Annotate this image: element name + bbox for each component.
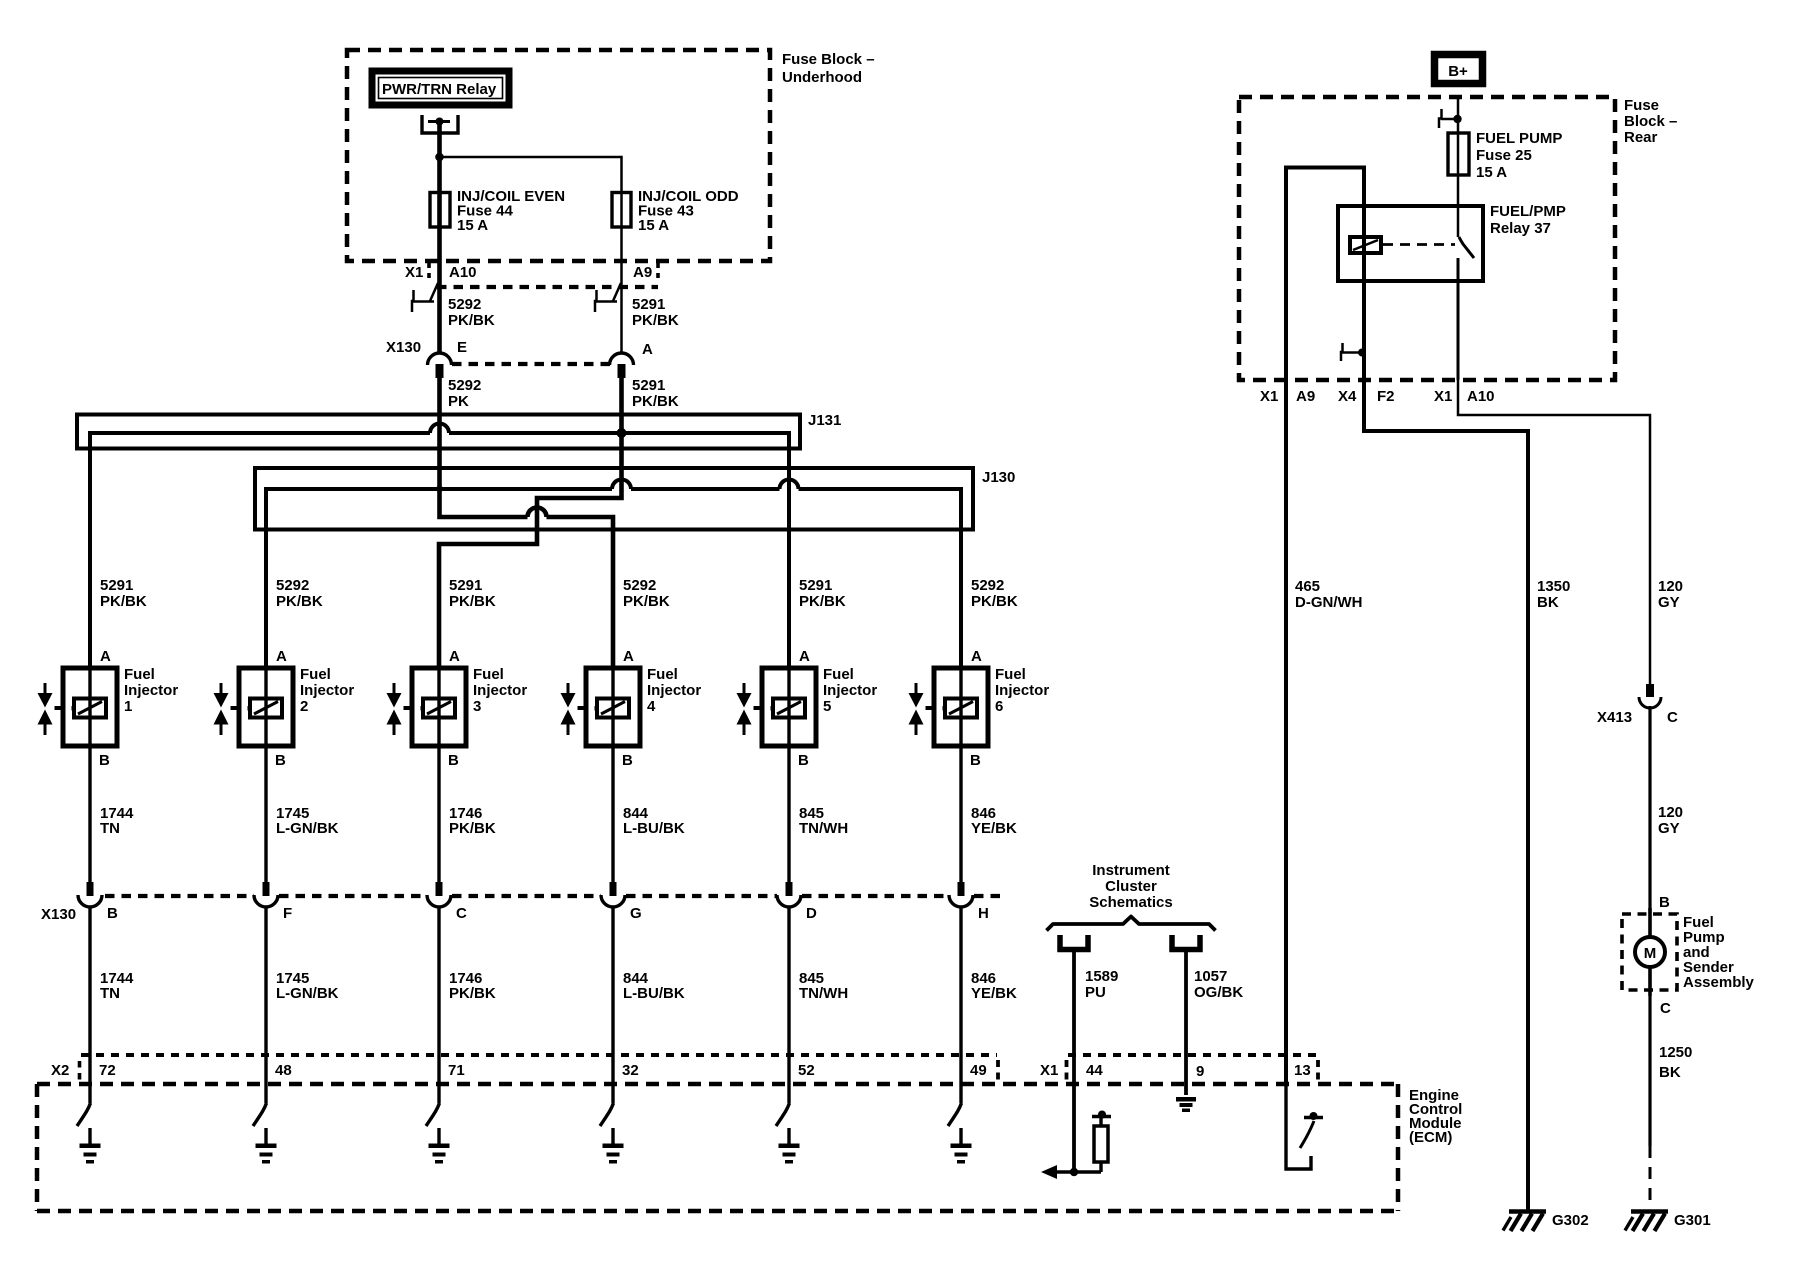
label pin A injector 6 (971, 648, 982, 665)
wire relay branch to fuse 43 (440, 157, 622, 353)
label wire 1589 PU (1085, 968, 1118, 1001)
relay K37 FUEL/PMP box (1338, 206, 1483, 281)
ECM internal ground 1 (80, 1128, 101, 1164)
fuse F44 INJ/COIL EVEN (430, 193, 450, 228)
label ECM pin 52 (798, 1062, 815, 1079)
label wire mid 1 (100, 805, 134, 837)
label ECM pin 44 (1086, 1062, 1103, 1079)
svg-text:PU: PU (1085, 984, 1106, 1001)
fuel injector 5 box (762, 668, 816, 746)
connector X1 ECM dotted line (1068, 1053, 1317, 1057)
connector X130 C female half (427, 895, 451, 907)
wire 5292 PK down (437, 378, 442, 515)
wire X130 B to ECM (88, 906, 91, 1103)
svg-text:Fuel: Fuel (124, 666, 155, 683)
wire 5291 crossover to injector 3 (439, 496, 622, 668)
label wire low 3 (449, 970, 496, 1002)
svg-text:48: 48 (275, 1062, 292, 1079)
junction dot (435, 153, 444, 162)
ECM driver switch 4 (600, 1103, 614, 1126)
svg-text:Fuel: Fuel (473, 666, 504, 683)
svg-text:B: B (99, 752, 110, 769)
label Fuel Injector 1 (124, 666, 178, 715)
connector X130 D male pin (786, 882, 793, 896)
relay K37 dashed link (1383, 243, 1455, 246)
svg-text:PK/BK: PK/BK (449, 593, 496, 610)
ECM internal ground 4 (603, 1128, 624, 1164)
svg-text:Injector: Injector (823, 682, 877, 699)
wire X130 G to ECM (611, 906, 614, 1103)
label pin D (806, 905, 817, 922)
label J130 (982, 469, 1015, 486)
ECM pin44 junction dot (1070, 1168, 1078, 1176)
svg-text:4: 4 (647, 698, 656, 715)
label ECM pin 9 (1196, 1063, 1204, 1080)
svg-text:5292: 5292 (623, 577, 656, 594)
fuel pump wire through box (1648, 908, 1652, 996)
svg-text:A: A (100, 648, 111, 665)
splice pack J130 box (255, 468, 973, 530)
svg-text:PK/BK: PK/BK (632, 312, 679, 329)
label J131 (808, 412, 841, 429)
label pin B pump (1659, 894, 1670, 911)
svg-text:5291: 5291 (632, 296, 665, 313)
svg-text:G302: G302 (1552, 1212, 1589, 1229)
junction dot 5291 to J131 (617, 428, 627, 438)
label 465 D-GN/WH (1295, 578, 1363, 611)
svg-text:44: 44 (1086, 1062, 1103, 1079)
svg-text:Block –: Block – (1624, 113, 1677, 130)
ECM pin44 arrow to other circuits (1041, 1165, 1101, 1179)
fuel pump assembly box (1622, 914, 1677, 990)
label pin A injector 4 (623, 648, 634, 665)
label ECM pin 13 (1294, 1062, 1311, 1079)
svg-text:B+: B+ (1448, 63, 1468, 80)
fuel injector 4 coil (595, 699, 630, 718)
svg-text:Fuel: Fuel (647, 666, 678, 683)
ground G302 (1503, 1212, 1546, 1232)
label wire mid 6 (971, 805, 1017, 837)
connector X1 ticks (429, 262, 658, 278)
label G302 (1552, 1212, 1589, 1229)
svg-text:Injector: Injector (995, 682, 1049, 699)
label pin A injector 3 (449, 648, 460, 665)
label X413 C (1597, 709, 1678, 726)
svg-text:Schematics: Schematics (1089, 894, 1172, 911)
wire B+ down (1457, 96, 1460, 237)
label FUEL/PMP Relay 37 (1490, 203, 1566, 237)
svg-text:Fuel: Fuel (300, 666, 331, 683)
label X2 (51, 1062, 69, 1079)
svg-text:Fuse: Fuse (1624, 97, 1659, 114)
ECM internal ground 5 (779, 1128, 800, 1164)
label pin B injector 4 (622, 752, 633, 769)
svg-text:2: 2 (300, 698, 308, 715)
svg-text:BK: BK (1537, 594, 1559, 611)
fuel injector 2 box (239, 668, 293, 746)
svg-text:Underhood: Underhood (782, 69, 862, 86)
svg-text:D-GN/WH: D-GN/WH (1295, 594, 1363, 611)
label pin B (107, 905, 118, 922)
svg-text:1: 1 (124, 698, 132, 715)
svg-text:465: 465 (1295, 578, 1320, 595)
svg-text:Assembly: Assembly (1683, 974, 1755, 991)
connector X413 female half (1639, 697, 1661, 708)
ECM internal ground 3 (429, 1128, 450, 1164)
connector X1 labels (405, 264, 652, 281)
label wire inj4 top 5292 PK/BK (623, 577, 670, 610)
svg-text:TN/WH: TN/WH (799, 985, 848, 1002)
connector X1 dashed line (437, 285, 658, 289)
label wire low 2 (276, 970, 339, 1002)
svg-text:5291: 5291 (799, 577, 832, 594)
svg-text:A9: A9 (1296, 388, 1315, 405)
svg-text:J130: J130 (982, 469, 1015, 486)
splice pack J131 box (77, 415, 800, 449)
svg-text:A: A (971, 648, 982, 665)
svg-text:PK/BK: PK/BK (623, 593, 670, 610)
label wire 5291 PK/BK (632, 296, 679, 329)
svg-text:C: C (1667, 709, 1678, 726)
svg-text:PK/BK: PK/BK (276, 593, 323, 610)
svg-text:OG/BK: OG/BK (1194, 984, 1243, 1001)
svg-text:X1: X1 (405, 264, 423, 281)
svg-text:G: G (630, 905, 642, 922)
junction dot 5292 to J130 (436, 486, 443, 493)
label Fuel Injector 4 (647, 666, 701, 715)
svg-text:5292: 5292 (276, 577, 309, 594)
svg-text:5291: 5291 (632, 377, 665, 394)
label wire low 1 (100, 970, 134, 1002)
wire injector 5 to X130 (787, 746, 790, 882)
svg-text:PK/BK: PK/BK (449, 985, 496, 1002)
label Fuse Block - Rear (1624, 97, 1677, 146)
wire injector 4 to X130 (611, 746, 614, 882)
wire injector 6 to X130 (959, 746, 962, 882)
label wire mid 2 (276, 805, 339, 837)
svg-text:(ECM): (ECM) (1409, 1129, 1452, 1146)
svg-text:3: 3 (473, 698, 481, 715)
wire X130 C to ECM (437, 906, 440, 1103)
svg-text:PK/BK: PK/BK (632, 393, 679, 410)
connector X130 B male pin (87, 882, 94, 896)
ECM driver switch 1 (77, 1103, 91, 1126)
svg-text:GY: GY (1658, 820, 1680, 837)
label pin A injector 2 (276, 648, 287, 665)
svg-text:YE/BK: YE/BK (971, 820, 1017, 837)
connector X2 dotted line (81, 1053, 997, 1057)
svg-text:49: 49 (970, 1062, 987, 1079)
wire injector 1 to X130 (88, 746, 91, 882)
svg-text:B: B (798, 752, 809, 769)
splice J130 bus wire (266, 480, 961, 668)
wire 120 GY lower (1648, 706, 1651, 914)
svg-text:TN: TN (100, 985, 120, 1002)
fuel injector 1 valve symbol (38, 683, 64, 735)
label wire inj6 top 5292 PK/BK (971, 577, 1018, 610)
label 1350 BK (1537, 578, 1570, 611)
svg-text:Fuse 25: Fuse 25 (1476, 147, 1532, 164)
label fuse 25 (1476, 130, 1562, 181)
label 120 GY lower (1658, 804, 1683, 837)
svg-text:Fuel: Fuel (995, 666, 1026, 683)
fuse block rear box (1239, 97, 1615, 380)
svg-text:1589: 1589 (1085, 968, 1118, 985)
svg-text:15 A: 15 A (457, 217, 488, 234)
label fuse 44 (457, 188, 565, 234)
fuel injector 1 box (63, 668, 117, 746)
connector X130 H female half (949, 895, 973, 907)
svg-text:71: 71 (448, 1062, 465, 1079)
wire 1057 OG/BK (1184, 952, 1188, 1095)
label wire 5292 PK (448, 377, 481, 410)
wire X130 D to ECM (787, 906, 790, 1103)
svg-text:F: F (283, 905, 292, 922)
label wire mid 3 (449, 805, 496, 837)
label X1 ECM (1040, 1062, 1058, 1079)
fuel injector 6 coil (943, 699, 978, 718)
svg-text:Fuel: Fuel (823, 666, 854, 683)
label Fuse Block - Underhood (782, 51, 875, 86)
svg-text:Cluster: Cluster (1105, 878, 1157, 895)
svg-text:TN/WH: TN/WH (799, 820, 848, 837)
wire 1350 BK (1364, 352, 1528, 1211)
svg-text:A10: A10 (1467, 388, 1495, 405)
label pin G (630, 905, 642, 922)
svg-text:H: H (978, 905, 989, 922)
terminal B+ hook (1439, 109, 1462, 128)
fuel injector 4 valve symbol (561, 683, 587, 735)
label G301 (1674, 1212, 1711, 1229)
connector X1 ECM ticks (1067, 1060, 1319, 1082)
connector X130 labels E A (386, 339, 653, 358)
fuel injector 3 valve symbol (387, 683, 413, 735)
terminal A10 (412, 283, 438, 312)
svg-text:A9: A9 (633, 264, 652, 281)
fuel injector 5 coil (771, 699, 806, 718)
label 120 GY upper (1658, 578, 1683, 611)
svg-text:Injector: Injector (647, 682, 701, 699)
ECM internal resistor (1092, 1111, 1111, 1173)
label pin A injector 1 (100, 648, 111, 665)
label wire low 5 (799, 970, 848, 1002)
component receptacle 1057 (1172, 935, 1200, 950)
svg-text:L-GN/BK: L-GN/BK (276, 820, 339, 837)
svg-text:X4: X4 (1338, 388, 1357, 405)
svg-text:X1: X1 (1260, 388, 1278, 405)
wire 120 GY upper (1458, 380, 1650, 684)
svg-text:5292: 5292 (971, 577, 1004, 594)
svg-text:6: 6 (995, 698, 1003, 715)
connector X130 G male pin (610, 882, 617, 896)
connector X130 D female half (777, 895, 801, 907)
svg-text:1350: 1350 (1537, 578, 1570, 595)
ground G301 (1625, 1212, 1668, 1232)
label ECM pin 72 (99, 1062, 116, 1079)
svg-text:G301: G301 (1674, 1212, 1711, 1229)
svg-text:M: M (1644, 945, 1657, 962)
fuel injector 3 box (412, 668, 466, 746)
svg-text:1250: 1250 (1659, 1044, 1692, 1061)
labels rear block pins (1260, 388, 1495, 405)
connector X130 C male pin (436, 882, 443, 896)
connector X130 E male pin (436, 364, 444, 378)
wire relay coil feed (1286, 168, 1364, 1085)
connector X130 A male pin (618, 364, 626, 378)
svg-text:5292: 5292 (448, 377, 481, 394)
svg-text:L-BU/BK: L-BU/BK (623, 820, 685, 837)
label pin B injector 1 (99, 752, 110, 769)
wire relay to fuse 44 (437, 123, 442, 353)
label pin C pump (1660, 1000, 1671, 1017)
connector X413 male pin (1646, 684, 1654, 697)
relay K37 switch (1458, 237, 1474, 380)
connector X130 F female half (254, 895, 278, 907)
svg-text:5: 5 (823, 698, 831, 715)
svg-text:X1: X1 (1434, 388, 1452, 405)
B+ battery feed box (1435, 55, 1483, 84)
connector X2 ticks (80, 1060, 999, 1082)
connector X130 A female half (610, 353, 634, 365)
label pin B injector 5 (798, 752, 809, 769)
svg-text:Injector: Injector (300, 682, 354, 699)
svg-text:9: 9 (1196, 1063, 1204, 1080)
fuel injector 2 valve symbol (214, 683, 240, 735)
label wire 5292 PK/BK (448, 296, 495, 329)
label Fuel Injector 6 (995, 666, 1049, 715)
svg-text:A: A (623, 648, 634, 665)
svg-text:L-BU/BK: L-BU/BK (623, 985, 685, 1002)
svg-text:1057: 1057 (1194, 968, 1227, 985)
fuel injector 3 coil (421, 699, 456, 718)
label fuse 43 (638, 188, 739, 234)
ECM driver switch 5 (776, 1103, 790, 1126)
motor M fuel pump (1635, 937, 1665, 967)
label X130 row (41, 906, 76, 923)
svg-text:B: B (448, 752, 459, 769)
ECM box (37, 1084, 1398, 1211)
svg-text:Injector: Injector (124, 682, 178, 699)
svg-text:X2: X2 (51, 1062, 69, 1079)
label wire inj2 top 5292 PK/BK (276, 577, 323, 610)
label ECM pin 49 (970, 1062, 987, 1079)
fuel injector 1 coil (72, 699, 107, 718)
brace instrument cluster (1047, 917, 1216, 931)
svg-text:X1: X1 (1040, 1062, 1058, 1079)
label pin B injector 6 (970, 752, 981, 769)
fuel injector 6 valve symbol (909, 683, 935, 735)
label Instrument Cluster Schematics (1089, 862, 1172, 911)
svg-text:FUEL/PMP: FUEL/PMP (1490, 203, 1566, 220)
fuel injector 2 wire through (264, 668, 267, 746)
connector X130 H male pin (958, 882, 965, 896)
label pin B injector 3 (448, 752, 459, 769)
wire 5292 crossover to injector 4 (440, 508, 614, 668)
label pin A injector 5 (799, 648, 810, 665)
label 1250 BK (1659, 1044, 1692, 1081)
label Fuel Injector 2 (300, 666, 354, 715)
ECM driver switch 3 (426, 1103, 440, 1126)
terminal F2 hook (1341, 343, 1366, 361)
svg-text:TN: TN (100, 820, 120, 837)
svg-text:15 A: 15 A (638, 217, 669, 234)
svg-text:X130: X130 (386, 339, 421, 356)
connector X130 F male pin (263, 882, 270, 896)
relay contact terminal (422, 115, 458, 133)
wire injector 3 to X130 (437, 746, 440, 882)
label Fuel Injector 3 (473, 666, 527, 715)
svg-text:A: A (449, 648, 460, 665)
svg-text:A10: A10 (449, 264, 477, 281)
wire injector 2 to X130 (264, 746, 267, 882)
relay K PWR/TRN Relay (372, 71, 509, 105)
svg-text:15 A: 15 A (1476, 164, 1507, 181)
svg-text:PK: PK (448, 393, 469, 410)
svg-text:Injector: Injector (473, 682, 527, 699)
svg-text:120: 120 (1658, 578, 1683, 595)
svg-text:A: A (276, 648, 287, 665)
label wire mid 4 (623, 805, 685, 837)
fuel injector 4 wire through (611, 668, 614, 746)
label wire inj3 top 5291 PK/BK (449, 577, 496, 610)
svg-text:Instrument: Instrument (1092, 862, 1170, 879)
svg-text:120: 120 (1658, 804, 1683, 821)
svg-text:PK/BK: PK/BK (100, 593, 147, 610)
svg-text:B: B (970, 752, 981, 769)
svg-text:X413: X413 (1597, 709, 1632, 726)
label pin F (283, 905, 292, 922)
label pin B injector 2 (275, 752, 286, 769)
wire X130 H to ECM (959, 906, 962, 1103)
svg-text:A: A (799, 648, 810, 665)
label wire 5291 PK/BK b (632, 377, 679, 410)
connector X130 E female half (428, 353, 452, 365)
fuel injector 6 box (934, 668, 988, 746)
svg-text:F2: F2 (1377, 388, 1395, 405)
label Fuel Pump and Sender Assembly (1683, 914, 1755, 991)
svg-text:B: B (1659, 894, 1670, 911)
label wire 1057 OG/BK (1194, 968, 1243, 1001)
ECM internal ground 6 (951, 1128, 972, 1164)
ECM driver switch 2 (253, 1103, 267, 1126)
ECM pin9 internal ground (1176, 1097, 1196, 1112)
ECM internal ground 2 (256, 1128, 277, 1164)
ECM pin13 wire hook (1286, 1084, 1311, 1169)
wire 5291 PK/BK down (619, 378, 624, 496)
label ECM pin 32 (622, 1062, 639, 1079)
label pin C (456, 905, 467, 922)
svg-text:13: 13 (1294, 1062, 1311, 1079)
svg-text:E: E (457, 339, 467, 356)
svg-text:B: B (107, 905, 118, 922)
svg-text:Rear: Rear (1624, 129, 1658, 146)
svg-text:PWR/TRN Relay: PWR/TRN Relay (382, 81, 497, 98)
svg-text:5291: 5291 (449, 577, 482, 594)
label wire inj5 top 5291 PK/BK (799, 577, 846, 610)
svg-text:5292: 5292 (448, 296, 481, 313)
svg-text:Fuse Block –: Fuse Block – (782, 51, 875, 68)
splice J131 bus wire (90, 424, 789, 669)
svg-text:BK: BK (1659, 1064, 1681, 1081)
svg-text:PK/BK: PK/BK (971, 593, 1018, 610)
svg-text:5291: 5291 (100, 577, 133, 594)
svg-text:Relay 37: Relay 37 (1490, 220, 1551, 237)
svg-text:L-GN/BK: L-GN/BK (276, 985, 339, 1002)
wire X130 F to ECM (264, 906, 267, 1103)
svg-text:72: 72 (99, 1062, 116, 1079)
wire 1250 BK (1648, 996, 1651, 1206)
svg-text:YE/BK: YE/BK (971, 985, 1017, 1002)
